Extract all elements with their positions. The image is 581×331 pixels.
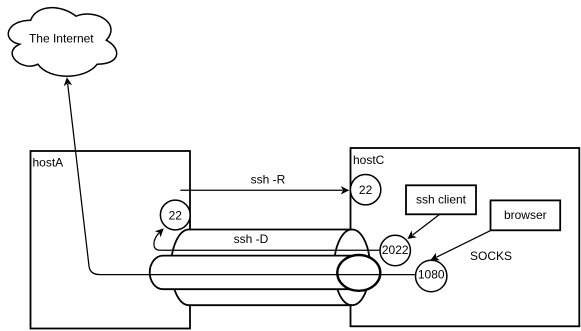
wire from ssh client box to port 2022	[407, 214, 439, 239]
svg-text:22: 22	[359, 183, 373, 197]
svg-text:hostC: hostC	[353, 153, 385, 167]
tunnel outer (ssh -D tunnel)	[171, 230, 370, 306]
browser box	[491, 200, 561, 230]
port 22 circle on hostC	[350, 175, 380, 205]
wire from port 2022 through outer tunnel hooking up to port 22 on hostA	[154, 228, 380, 250]
port 22 circle on hostA	[160, 200, 190, 230]
ssh client box	[406, 185, 476, 214]
cloud The Internet	[8, 8, 116, 77]
svg-text:The Internet: The Internet	[29, 31, 94, 45]
svg-text:hostA: hostA	[33, 156, 64, 170]
wire from port 1080 through inner tunnel to The Internet cloud	[64, 77, 416, 274]
host A box	[31, 151, 191, 329]
svg-text:SOCKS: SOCKS	[470, 249, 512, 263]
host C box	[351, 148, 580, 326]
svg-text:ssh -D: ssh -D	[234, 232, 269, 246]
svg-text:1080: 1080	[418, 267, 445, 281]
svg-text:browser: browser	[504, 208, 547, 222]
svg-text:2022: 2022	[382, 243, 409, 257]
tunnel inner right end cap (bold ellipse)	[337, 255, 380, 291]
wire ssh -R from hostA to port 22 on hostC	[180, 186, 349, 194]
port 1080 circle on hostC	[416, 260, 447, 291]
tunnel inner (connection pipe)	[150, 256, 359, 290]
svg-text:22: 22	[169, 208, 183, 222]
port 2022 circle on hostC	[380, 235, 410, 265]
wire from browser box to port 1080 (SOCKS)	[430, 230, 491, 260]
svg-text:ssh client: ssh client	[416, 192, 467, 206]
svg-text:ssh -R: ssh -R	[251, 173, 286, 187]
